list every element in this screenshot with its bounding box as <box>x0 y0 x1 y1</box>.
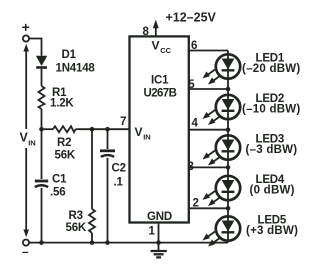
wire R3 to bottom rail <box>91 233 93 243</box>
LED3 <box>203 135 241 165</box>
svg-text:8: 8 <box>143 26 150 38</box>
svg-text:.1: .1 <box>114 177 124 189</box>
Vcc supply stub with arrow <box>155 28 157 37</box>
wire D1 to R1 <box>41 69 43 86</box>
ground <box>158 243 160 251</box>
V_IN measure line upper with up arrow <box>25 50 27 129</box>
pin 6 wire <box>189 50 228 52</box>
capacitor C1 <box>35 180 48 183</box>
pin 5 wire <box>189 88 228 90</box>
svg-text:1.2K: 1.2K <box>50 98 74 110</box>
wire R2 to pin 7 <box>76 128 130 130</box>
pin 1 stub wire <box>158 223 160 243</box>
svg-text:+12–25V: +12–25V <box>166 11 217 25</box>
svg-text:–: – <box>22 245 29 259</box>
junction pin1 / bottom rail <box>156 240 161 245</box>
svg-text:4: 4 <box>192 118 199 130</box>
pin 4 wire <box>189 129 228 131</box>
junction C2 / bottom rail <box>105 240 110 245</box>
svg-text:D1: D1 <box>62 49 77 61</box>
junction LED1/LED2 pin5 <box>226 87 231 92</box>
svg-text:C2: C2 <box>112 163 126 175</box>
svg-text:(0 dBW): (0 dBW) <box>250 185 295 197</box>
wire node C to C2 <box>107 129 109 149</box>
svg-text:.56: .56 <box>50 187 65 199</box>
pin 2 wire <box>189 207 228 209</box>
wire from + terminal to left branch <box>29 39 41 56</box>
V_IN measure line lower with down arrow <box>25 148 27 231</box>
wire C2 to bottom rail <box>107 158 109 243</box>
svg-text:(–10 dBW): (–10 dBW) <box>242 104 300 116</box>
resistor R1 <box>39 86 45 109</box>
svg-text:1N4148: 1N4148 <box>56 63 96 75</box>
pin 3 wire <box>189 166 228 168</box>
junction LED4/LED5 pin2 <box>226 206 231 211</box>
svg-text:V: V <box>135 125 143 139</box>
svg-text:56K: 56K <box>66 222 87 234</box>
svg-text:C1: C1 <box>52 174 67 186</box>
terminal + (positive input) <box>23 35 29 41</box>
op-amp IC1 U267B body <box>130 36 189 222</box>
junction R3 / bottom rail <box>90 240 95 245</box>
wire R1 to node A <box>41 109 43 179</box>
junction left branch / bottom rail <box>39 240 44 245</box>
svg-text:R3: R3 <box>69 210 83 222</box>
svg-text:(–3 dBW): (–3 dBW) <box>246 144 298 156</box>
svg-text:IN: IN <box>143 133 151 142</box>
LED1 <box>203 54 241 84</box>
LED4 <box>203 176 241 206</box>
svg-text:2: 2 <box>193 198 199 210</box>
resistor R2 <box>53 126 76 132</box>
svg-text:(–20 dBW): (–20 dBW) <box>242 63 300 75</box>
LED5 <box>203 216 241 246</box>
svg-text:+: + <box>22 19 30 35</box>
wire node A to R2 <box>42 128 54 130</box>
svg-text:CC: CC <box>160 46 171 55</box>
resistor R3 <box>89 209 95 233</box>
svg-text:IN: IN <box>28 139 36 148</box>
svg-text:7: 7 <box>120 116 126 128</box>
LED2 <box>203 95 241 125</box>
junction node A <box>39 127 44 132</box>
LED chain vertical wire <box>227 51 229 243</box>
wire C1 to bottom rail <box>41 188 43 243</box>
bottom rail wire <box>29 242 228 244</box>
junction node C (C2 tap) <box>105 127 110 132</box>
svg-text:IC1: IC1 <box>151 75 169 87</box>
svg-text:(+3 dBW): (+3 dBW) <box>246 225 298 237</box>
svg-text:V: V <box>152 39 160 53</box>
wire node B to R3 <box>91 129 93 209</box>
svg-text:U267B: U267B <box>144 88 177 100</box>
svg-text:56K: 56K <box>55 150 76 162</box>
junction node B (R3 tap) <box>90 127 95 132</box>
junction LED3/LED4 pin3 <box>226 165 231 170</box>
diode D1 <box>36 56 47 66</box>
svg-text:GND: GND <box>147 211 172 223</box>
terminal - (negative input) <box>23 240 29 246</box>
svg-text:R2: R2 <box>57 137 71 149</box>
svg-text:6: 6 <box>191 40 197 52</box>
svg-text:5: 5 <box>188 79 195 91</box>
svg-text:3: 3 <box>188 161 194 173</box>
svg-text:V: V <box>20 131 29 145</box>
capacitor C2 <box>100 149 115 152</box>
svg-text:1: 1 <box>149 226 156 238</box>
junction LED2/LED3 pin4 <box>226 127 231 132</box>
